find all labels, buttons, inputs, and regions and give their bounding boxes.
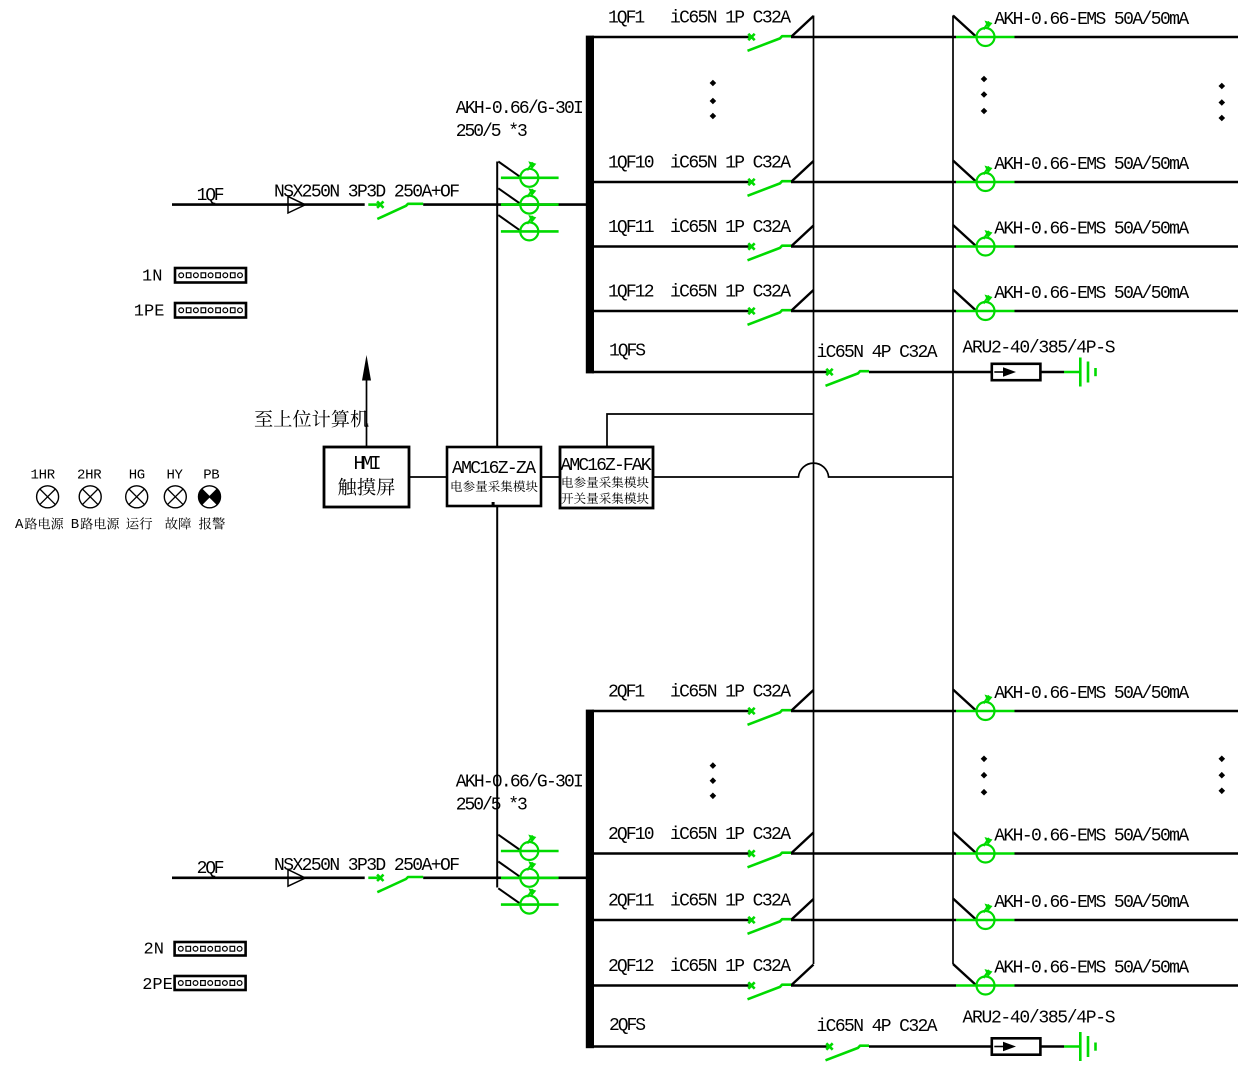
tap diagonal from CT bus (953, 16, 977, 38)
CT circle 2 (520, 196, 538, 214)
tap diagonal from CT bus (953, 690, 977, 712)
CT diagonal tap 2 (498, 862, 521, 878)
wire (1015, 181, 1239, 184)
wire feeder 1QF12 (592, 310, 749, 313)
tap diagonal to meter bus (792, 290, 814, 311)
miniature breaker 1QF11 iC65N 1P (748, 243, 754, 249)
tap diagonal from CT bus (953, 899, 977, 921)
svg-text:1QF10: 1QF10 (608, 154, 655, 174)
wire (1015, 984, 1239, 987)
wire (791, 984, 956, 987)
svg-text:AKH-0.66-EMS 50A/50mA: AKH-0.66-EMS 50A/50mA (994, 959, 1189, 979)
svg-text:2PE: 2PE (142, 976, 173, 995)
tap diagonal to meter bus (792, 899, 814, 920)
wire (1015, 245, 1239, 248)
svg-text:HMI: HMI (354, 453, 382, 475)
svg-text:AKH-0.66-EMS 50A/50mA: AKH-0.66-EMS 50A/50mA (994, 893, 1189, 913)
CT diagonal tap 3 (498, 215, 521, 231)
svg-text:HG: HG (129, 467, 145, 483)
wire (1040, 1045, 1064, 1048)
tap diagonal to meter bus (792, 690, 814, 711)
svg-text:iC65N 4P C32A: iC65N 4P C32A (817, 343, 938, 363)
svg-text:1QF: 1QF (197, 186, 225, 206)
svg-text:iC65N 1P C32A: iC65N 1P C32A (670, 683, 791, 703)
surge protective device ARU2 2 (992, 1038, 1041, 1054)
wire feeder 1QF10 (592, 181, 749, 184)
wire (791, 36, 956, 39)
svg-text:A: A (15, 517, 24, 533)
svg-text:iC65N 1P C32A: iC65N 1P C32A (670, 154, 791, 174)
wire (1015, 919, 1239, 922)
tap diagonal from CT bus (953, 225, 977, 247)
branch CT AKH-0.66-EMS 2QF1 (956, 710, 1015, 713)
svg-text:PB: PB (203, 467, 219, 483)
flag symbol 1QF incoming (288, 196, 305, 213)
ground symbol 2 (1064, 1032, 1096, 1061)
tap diagonal to meter bus (792, 965, 814, 986)
CT circle 3 (520, 222, 538, 240)
svg-text:1QFS: 1QFS (609, 342, 646, 362)
module AMC16Z-ZA (447, 447, 541, 506)
svg-text:AKH-0.66-EMS 50A/50mA: AKH-0.66-EMS 50A/50mA (994, 155, 1189, 175)
CT primary line 2 (501, 203, 559, 206)
tap diagonal to meter bus (792, 161, 814, 182)
wire AMC16Z-ZA to AMC16Z-FAK (541, 476, 560, 478)
surge protective device ARU2 1 (992, 364, 1041, 380)
wire (791, 310, 956, 313)
wire feeder 1QF11 (592, 245, 749, 248)
busbar 1 (586, 36, 594, 374)
svg-text:2QF: 2QF (197, 859, 225, 879)
tap diagonal from CT bus (953, 290, 977, 312)
tap diagonal from CT bus (953, 161, 977, 183)
wire (791, 852, 956, 855)
CT primary line 3 (501, 230, 559, 233)
svg-text:2QF10: 2QF10 (608, 825, 655, 845)
terminal block 1N (175, 268, 246, 283)
tap diagonal to meter bus (792, 833, 814, 854)
miniature breaker 2QF12 iC65N 1P (748, 982, 754, 988)
svg-text:250/5 *3: 250/5 *3 (456, 122, 528, 142)
miniature breaker 1QFS iC65N 4P (826, 369, 832, 375)
CT diagonal tap 3 (498, 888, 521, 904)
flag symbol 2QF incoming (288, 870, 305, 887)
lamp label alarm (199, 517, 225, 529)
wire (423, 203, 588, 206)
svg-text:250/5 *3: 250/5 *3 (456, 795, 528, 815)
wire feeder 2QF1 (592, 710, 749, 713)
tap diagonal from CT bus (953, 964, 977, 986)
svg-text:iC65N 1P C32A: iC65N 1P C32A (670, 957, 791, 977)
wire (869, 1045, 992, 1048)
wire (791, 919, 956, 922)
CT primary line 1 (501, 850, 559, 853)
svg-text:AKH-0.66-EMS 50A/50mA: AKH-0.66-EMS 50A/50mA (994, 10, 1189, 30)
wire AMC16Z-FAK right to CT bus with hop (653, 463, 953, 477)
HMI touch screen U-HMI (324, 447, 409, 507)
branch CT AKH-0.66-EMS 1QF10 (956, 181, 1015, 184)
svg-text:1QF12: 1QF12 (608, 283, 655, 303)
miniature breaker 2QF1 iC65N 1P (748, 708, 754, 714)
svg-text:iC65N 1P C32A: iC65N 1P C32A (670, 9, 791, 29)
branch CT AKH-0.66-EMS 1QF12 (956, 310, 1015, 313)
wire (1015, 310, 1239, 313)
ellipsis dots top near busbar (710, 80, 717, 87)
branch CT AKH-0.66-EMS 2QF11 (956, 919, 1015, 922)
CT circle 2 (520, 869, 538, 887)
svg-text:iC65N 1P C32A: iC65N 1P C32A (670, 218, 791, 238)
CT circle 1 (520, 169, 538, 187)
svg-text:iC65N 1P C32A: iC65N 1P C32A (670, 825, 791, 845)
wire (1040, 371, 1064, 374)
wire feeder 1QFS (592, 371, 827, 374)
wire (1015, 852, 1239, 855)
svg-text:iC65N 4P C32A: iC65N 4P C32A (817, 1017, 938, 1037)
svg-text:AKH-0.66-EMS 50A/50mA: AKH-0.66-EMS 50A/50mA (994, 220, 1189, 240)
svg-text:2QF1: 2QF1 (608, 683, 645, 703)
svg-text:2HR: 2HR (77, 467, 102, 483)
wire (1015, 710, 1239, 713)
svg-text:iC65N 1P C32A: iC65N 1P C32A (670, 892, 791, 912)
miniature breaker 2QF10 iC65N 1P (748, 850, 754, 856)
miniature breaker 2QFS iC65N 4P (826, 1043, 832, 1049)
svg-text:AKH-0.66/G-30I: AKH-0.66/G-30I (456, 772, 584, 792)
svg-text:1PE: 1PE (134, 303, 165, 322)
svg-text:2QF12: 2QF12 (608, 957, 655, 977)
svg-text:1HR: 1HR (31, 467, 56, 483)
svg-text:2QFS: 2QFS (609, 1016, 646, 1036)
miniature breaker 1QF12 iC65N 1P (748, 308, 754, 314)
CT diagonal tap 1 (498, 835, 521, 851)
terminal block 2PE (175, 976, 246, 990)
svg-text:1QF11: 1QF11 (608, 218, 655, 238)
wire feeder 2QFS (592, 1045, 827, 1048)
CT secondary vertical wire bottom (496, 506, 498, 888)
branch CT AKH-0.66-EMS 2QF10 (956, 852, 1015, 855)
ellipsis dots bottom mid (981, 756, 988, 763)
CT circle 1 (520, 842, 538, 860)
svg-text:NSX250N 3P3D 250A+OF: NSX250N 3P3D 250A+OF (274, 856, 460, 876)
arrow to host computer (366, 378, 368, 447)
miniature breaker 1QF1 iC65N 1P (748, 34, 754, 40)
busbar 2 (586, 710, 594, 1049)
wire AMC16Z-FAK top to meter bus (607, 414, 814, 447)
svg-text:1N: 1N (142, 268, 162, 287)
svg-text:iC65N 1P C32A: iC65N 1P C32A (670, 283, 791, 303)
lamp label fault (165, 517, 191, 529)
branch CT AKH-0.66-EMS 1QF1 (956, 36, 1015, 39)
svg-text:B: B (71, 517, 79, 533)
CT circle 3 (520, 896, 538, 914)
ellipsis dots bottom right (1219, 756, 1226, 763)
wire (1015, 36, 1239, 39)
label to host computer (255, 410, 369, 428)
wire (423, 876, 588, 879)
wire (791, 710, 956, 713)
circuit breaker 1QF NSX250N (377, 201, 383, 207)
ellipsis dots top right (1219, 83, 1226, 90)
branch CT AKH-0.66-EMS 2QF12 (956, 984, 1015, 987)
svg-text:AKH-0.66-EMS 50A/50mA: AKH-0.66-EMS 50A/50mA (994, 827, 1189, 847)
wire main incomer 2QF (172, 876, 365, 879)
svg-text:ARU2-40/385/4P-S: ARU2-40/385/4P-S (963, 339, 1116, 359)
meter bus vertical wire left (813, 16, 815, 965)
svg-text:1QF1: 1QF1 (608, 9, 645, 29)
miniature breaker 2QF11 iC65N 1P (748, 917, 754, 923)
wire (791, 245, 956, 248)
CT primary line 2 (501, 876, 559, 879)
svg-text:ARU2-40/385/4P-S: ARU2-40/385/4P-S (963, 1009, 1116, 1029)
lamp label run (126, 517, 152, 529)
tap diagonal to meter bus (792, 226, 814, 247)
branch CT AKH-0.66-EMS 1QF11 (956, 245, 1015, 248)
tap diagonal to meter bus (792, 16, 814, 37)
CT bus vertical wire right (952, 16, 954, 965)
svg-text:NSX250N 3P3D 250A+OF: NSX250N 3P3D 250A+OF (274, 183, 460, 203)
CT primary line 3 (501, 903, 559, 906)
CT primary line 1 (501, 177, 559, 180)
wire (869, 371, 992, 374)
miniature breaker 1QF10 iC65N 1P (748, 179, 754, 185)
wire main incomer 1QF (172, 203, 365, 206)
ellipsis dots top mid (981, 76, 988, 83)
wire feeder 1QF1 (592, 36, 749, 39)
svg-text:AKH-0.66-EMS 50A/50mA: AKH-0.66-EMS 50A/50mA (994, 284, 1189, 304)
svg-text:AKH-0.66-EMS 50A/50mA: AKH-0.66-EMS 50A/50mA (994, 684, 1189, 704)
svg-text:AKH-0.66/G-30I: AKH-0.66/G-30I (456, 99, 584, 119)
svg-text:2QF11: 2QF11 (608, 892, 655, 912)
terminal block 2N (175, 942, 246, 956)
wire (791, 181, 956, 184)
wire feeder 2QF12 (592, 984, 749, 987)
CT diagonal tap 1 (498, 162, 521, 178)
ellipsis dots bottom near busbar (710, 762, 717, 769)
svg-text:AMC16Z-ZA: AMC16Z-ZA (452, 459, 536, 479)
terminal block 1PE (175, 303, 246, 318)
stray period mark (492, 502, 495, 505)
svg-text:HY: HY (167, 467, 184, 483)
svg-text:AMC16Z-FAK: AMC16Z-FAK (561, 456, 652, 476)
wire HMI to AMC16Z-ZA (409, 476, 447, 478)
CT secondary vertical wire top (496, 162, 498, 448)
CT diagonal tap 2 (498, 188, 521, 204)
circuit breaker 2QF NSX250N (377, 875, 383, 881)
ground symbol 1 (1064, 358, 1096, 387)
wire feeder 2QF10 (592, 852, 749, 855)
tap diagonal from CT bus (953, 832, 977, 854)
svg-text:2N: 2N (144, 941, 164, 960)
wire feeder 2QF11 (592, 919, 749, 922)
module AMC16Z-FAK (560, 447, 653, 508)
